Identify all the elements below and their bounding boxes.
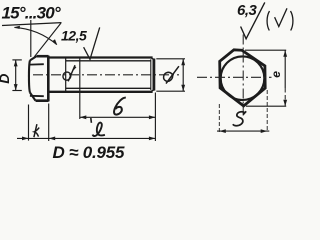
dimension d line (182, 59, 184, 91)
shank top line (49, 56, 153, 58)
chamfer angle extension line vertical (30, 20, 32, 57)
label b script (114, 98, 126, 115)
label S script (233, 111, 246, 125)
parenthesis right (291, 11, 293, 31)
d1 boundary line (65, 58, 67, 92)
dimension b line (80, 116, 156, 118)
dimension e line (284, 50, 286, 88)
dimension D tick top (12, 59, 21, 61)
dimension b arrow right (149, 115, 156, 119)
roughness 12,5 check mark (84, 27, 100, 59)
svg-text:D ≈ 0.955: D ≈ 0.955 (53, 143, 126, 162)
dimension d arrow up (181, 59, 185, 66)
bolt head outline (29, 56, 49, 102)
dimension k extension left (28, 105, 30, 141)
dimension k+l shared extension (48, 104, 50, 142)
dimension l arrow left (49, 137, 56, 141)
dimension D line (15, 60, 17, 90)
hexagon head end view (220, 50, 266, 106)
dimension D arrow up (14, 60, 18, 67)
dimension S arrow right (261, 129, 268, 133)
dimension e extension top (245, 49, 286, 51)
dimension e arrow up (283, 50, 287, 57)
dimension d extension top (156, 58, 185, 60)
dimension d extension bottom (156, 90, 185, 92)
label l script (91, 118, 105, 136)
arc arrowhead left (14, 26, 20, 29)
label d rotated script (164, 66, 179, 83)
bolt end top chamfer (151, 58, 154, 60)
dimension l arrow right (149, 137, 156, 141)
label d1 rotated script (63, 65, 76, 81)
dimension S extension right dashed (266, 90, 268, 132)
parenthesis left (267, 11, 269, 31)
dimension S arrow left (219, 129, 226, 133)
hexagon vertical centerline (242, 35, 244, 116)
svg-text:12,5: 12,5 (61, 28, 87, 44)
chamfer angle arc (15, 27, 57, 44)
small check mark (275, 8, 287, 26)
dimension b arrow left (80, 115, 87, 119)
dimension k arrow left (22, 137, 29, 141)
arc arrowhead right (52, 39, 57, 45)
svg-text:D: D (0, 74, 12, 84)
head facet line lower (30, 95, 44, 97)
svg-text:e: e (269, 71, 283, 78)
dimension e extension bottom (246, 105, 286, 107)
dimension e arrow down (283, 100, 287, 107)
hexagon horizontal centerline (197, 76, 272, 78)
dimension S line (217, 130, 269, 132)
thread root bottom line (66, 87, 151, 89)
dimension l line (49, 137, 156, 139)
bolt end chamfer line (150, 59, 152, 90)
bolt end shared extension (b,l) (154, 93, 156, 142)
chamfer angle leader line (34, 23, 61, 57)
label 15...30 underline (2, 23, 62, 26)
svg-text:6,3: 6,3 (237, 2, 258, 19)
dimension k line left part (17, 137, 49, 139)
dimension S extension left dashed (218, 104, 220, 132)
shank bottom line (49, 91, 153, 93)
bolt end face (152, 59, 155, 91)
inscribed circle (221, 56, 265, 100)
label k script (34, 124, 39, 137)
roughness 6,3 check mark (241, 2, 265, 38)
dimension e line lower dashed (284, 88, 286, 106)
svg-text:15°...30°: 15°...30° (2, 3, 61, 22)
thread start extension line (b) (79, 58, 81, 120)
thread root top line (66, 60, 151, 62)
dimension D tick bottom (12, 90, 21, 92)
head facet line upper (30, 63, 44, 65)
centerline bolt axis (33, 74, 179, 76)
bolt end bottom chamfer (151, 90, 154, 92)
dimension d arrow down (181, 85, 185, 92)
dimension D arrow down (14, 84, 18, 91)
